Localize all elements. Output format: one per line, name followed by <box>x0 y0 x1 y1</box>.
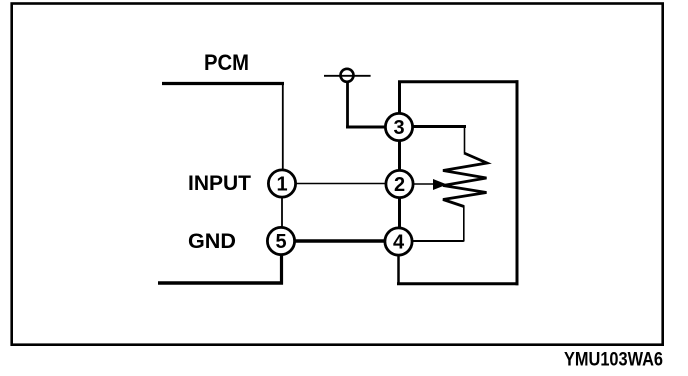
wire PCM connector bottom <box>158 281 283 285</box>
wire resistor to pin 4 <box>413 240 464 242</box>
wire pin 1 to pin 2 <box>296 183 386 185</box>
resistor bottom lead <box>463 206 465 242</box>
svg-text:PCM: PCM <box>204 50 249 75</box>
wire pin 3 to pin 2 <box>398 141 401 171</box>
svg-text:3: 3 <box>393 117 404 139</box>
svg-text:INPUT: INPUT <box>188 172 251 195</box>
connector pin 4 <box>385 228 412 255</box>
wire pin 5 down to connector bottom <box>280 255 283 285</box>
resistor R (potentiometer) <box>443 153 487 207</box>
wire pin 2 to wiper <box>414 183 435 185</box>
sensor box outline <box>397 80 519 285</box>
wire PCM connector right vertical to pin 1 <box>282 84 284 171</box>
wire pin 5 to pin 4 <box>295 239 385 243</box>
wire pin 1 to pin 5 <box>281 198 283 228</box>
connector pin 5 <box>267 227 294 254</box>
wiper arrow <box>433 179 447 190</box>
wire box top to pin 3 <box>398 82 401 114</box>
connector pin 3 <box>385 113 412 140</box>
wire pin 3 to resistor top <box>413 125 466 128</box>
wire terminal to pin 3 <box>346 126 387 129</box>
wire pin 4 to box bottom <box>397 256 400 286</box>
svg-text:2: 2 <box>394 174 405 196</box>
wire pin 2 to pin 4 <box>398 198 401 229</box>
svg-text:5: 5 <box>275 231 286 253</box>
terminal circle <box>341 69 354 82</box>
terminal crossbar <box>324 75 371 77</box>
connector pin 2 <box>386 170 413 197</box>
svg-text:4: 4 <box>393 232 405 254</box>
wire PCM connector top <box>162 82 284 85</box>
connector pin 1 <box>268 170 295 197</box>
svg-text:YMU103WA6: YMU103WA6 <box>564 349 663 371</box>
svg-text:GND: GND <box>188 229 236 253</box>
wire terminal down <box>346 82 349 128</box>
svg-text:1: 1 <box>276 174 287 196</box>
resistor top lead <box>464 127 466 153</box>
